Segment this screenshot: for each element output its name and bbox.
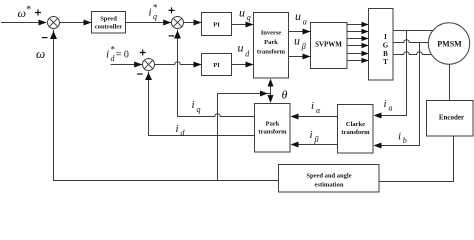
svg-text:i: i <box>106 49 109 61</box>
svg-text:a: a <box>389 104 393 113</box>
svg-text:u: u <box>238 41 244 55</box>
svg-text:transform: transform <box>341 129 370 136</box>
svg-text:SVPWM: SVPWM <box>315 41 342 49</box>
svg-text:i: i <box>398 131 401 143</box>
svg-text:Encoder: Encoder <box>439 114 464 122</box>
svg-text:θ: θ <box>282 88 288 102</box>
svg-text:q: q <box>153 12 157 21</box>
svg-text:i: i <box>176 123 179 135</box>
svg-text:i: i <box>149 7 152 19</box>
svg-text:Speed: Speed <box>100 16 117 23</box>
svg-text:I: I <box>384 33 387 41</box>
svg-text:controller: controller <box>95 24 122 31</box>
svg-text:i: i <box>311 100 314 112</box>
svg-text:*: * <box>111 44 116 54</box>
svg-text:B: B <box>383 50 388 58</box>
svg-text:q: q <box>197 105 201 114</box>
svg-text:b: b <box>403 136 407 145</box>
svg-text:u: u <box>294 34 300 48</box>
svg-text:transform: transform <box>258 129 287 136</box>
svg-text:Park: Park <box>264 39 278 46</box>
svg-text:*: * <box>153 2 158 12</box>
svg-text:i: i <box>310 129 313 141</box>
svg-text:T: T <box>383 58 388 66</box>
svg-text:PI: PI <box>213 62 220 69</box>
svg-text:i: i <box>192 99 195 111</box>
svg-text:u: u <box>239 6 245 20</box>
svg-text:ω: ω <box>36 46 45 61</box>
svg-text:PI: PI <box>213 22 220 29</box>
svg-text:q: q <box>247 13 251 22</box>
svg-text:β: β <box>301 42 306 51</box>
svg-text:u: u <box>295 9 301 23</box>
svg-text:Speed and angle: Speed and angle <box>306 173 351 180</box>
svg-text:Clarke: Clarke <box>346 121 365 128</box>
svg-text:β: β <box>314 135 319 144</box>
svg-text:ω: ω <box>18 6 26 20</box>
svg-text:*: * <box>26 4 31 15</box>
svg-text:estimation: estimation <box>315 181 344 188</box>
svg-text:PMSM: PMSM <box>437 40 462 49</box>
svg-text:= 0: = 0 <box>116 49 129 60</box>
svg-text:G: G <box>383 41 389 49</box>
svg-text:transform: transform <box>257 49 286 56</box>
svg-text:Inverse: Inverse <box>261 30 282 37</box>
svg-text:Park: Park <box>266 121 280 128</box>
svg-text:i: i <box>384 98 387 110</box>
